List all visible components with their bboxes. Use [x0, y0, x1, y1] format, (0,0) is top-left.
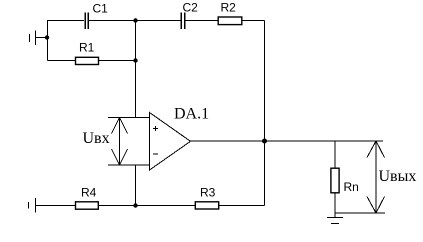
- wire (node B down to op-amp noninverting input): [135, 21, 137, 118]
- svg-text:R1: R1: [79, 41, 95, 55]
- node A (junction at upper input): [45, 35, 49, 39]
- wire (node B to C2): [136, 20, 181, 22]
- wire (C1 to node B): [89, 20, 135, 22]
- svg-text:R2: R2: [221, 1, 237, 15]
- wire (ground node to Uvyx bottom): [335, 212, 385, 214]
- svg-text:Uвых: Uвых: [379, 168, 417, 185]
- wire (node E to R3): [136, 205, 196, 207]
- wire (C2 to R2): [186, 20, 218, 22]
- wire (bottom rail left segment): [36, 205, 76, 207]
- op-amp DA.1: [150, 113, 191, 171]
- resistor R1: [48, 57, 136, 64]
- wire (input node up to top rail): [47, 21, 49, 38]
- wire (inverting input down to bottom rail): [135, 165, 137, 206]
- voltage arrow Uvyx (double-headed): [367, 141, 385, 213]
- wire (output node down to load Rn): [334, 141, 336, 168]
- wire (input node down to R1 row): [47, 38, 49, 61]
- wire (R2 to feedback corner): [242, 20, 265, 22]
- node D (output/feedback junction): [262, 139, 267, 144]
- svg-text:R3: R3: [200, 186, 216, 200]
- wire (R3 to feedback corner): [219, 205, 265, 207]
- wire (op-amp lower input line): [108, 164, 150, 166]
- resistor Rn: [331, 168, 339, 193]
- svg-text:C1: C1: [93, 2, 109, 16]
- resistor R3: [195, 202, 218, 209]
- node E (bottom rail junction): [133, 203, 137, 207]
- wire (Rn to ground): [334, 193, 336, 218]
- wire (R4 to node E): [99, 205, 136, 207]
- svg-text:R4: R4: [81, 186, 97, 200]
- node C (R1/C1 junction): [133, 58, 137, 62]
- svg-text:C2: C2: [183, 1, 199, 15]
- resistor R2: [218, 17, 242, 25]
- svg-text:Rn: Rn: [344, 180, 359, 194]
- svg-text:Uвх: Uвх: [83, 130, 110, 147]
- node B (top rail junction): [133, 18, 137, 22]
- resistor R4: [76, 202, 99, 209]
- capacitor C1: [85, 13, 88, 30]
- capacitor C2: [181, 13, 184, 30]
- wire (op-amp output line): [191, 140, 384, 142]
- ground: [327, 218, 343, 224]
- svg-text:DA.1: DA.1: [174, 106, 209, 123]
- wire (top rail left segment to C1): [47, 20, 84, 22]
- terminal X2 (lower input): [29, 198, 36, 213]
- wire (op-amp upper input line): [108, 117, 150, 119]
- wire (feedback vertical): [264, 21, 266, 206]
- voltage arrow Uvx (double-headed): [112, 118, 128, 166]
- terminal X1 (upper input): [30, 31, 48, 46]
